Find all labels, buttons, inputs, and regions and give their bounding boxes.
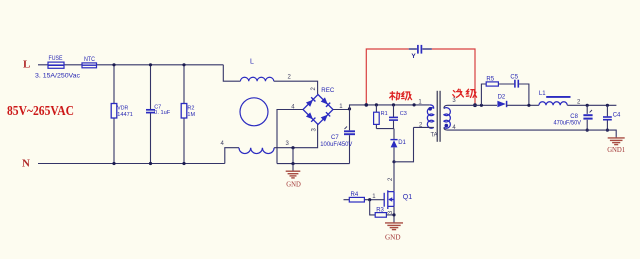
label ci-ji (secondary) [453, 89, 477, 97]
phase dot primary [428, 107, 432, 111]
resistor R3 [375, 213, 386, 218]
wire bridge pin1 stub [333, 109, 350, 111]
node rail pin1 [413, 103, 416, 106]
wire choke top lead-in [223, 65, 240, 81]
wire choke bottom lead-in [225, 148, 239, 164]
wire drop to primary ground rail [292, 148, 294, 164]
svg-text:TA: TA [431, 132, 438, 138]
svg-text:R2: R2 [187, 105, 194, 111]
choke bottom winding [239, 148, 274, 154]
svg-text:L: L [250, 59, 254, 66]
wire R5 to C5 [498, 83, 514, 85]
svg-text:GND: GND [286, 181, 301, 189]
svg-text:D1: D1 [398, 140, 406, 146]
resistor R2 1M [181, 104, 187, 119]
wire column C1 [150, 65, 152, 164]
wire red loop top/right [432, 49, 475, 105]
node source-R3 [392, 213, 395, 216]
ground GND (primary) [292, 164, 294, 172]
wire choke pin2 to bridge top [274, 81, 318, 94]
svg-text:D2: D2 [498, 95, 506, 101]
svg-text:0. 1uF: 0. 1uF [154, 110, 171, 116]
svg-text:VDR: VDR [117, 105, 128, 111]
bridge rectifier REC [303, 95, 333, 125]
svg-text:1M: 1M [187, 112, 195, 118]
svg-text:2: 2 [288, 75, 292, 81]
svg-text:N: N [22, 158, 30, 170]
transformer TA secondary winding [444, 108, 450, 129]
node red-left [365, 103, 369, 107]
svg-text:2: 2 [388, 177, 394, 181]
primary ground rail [277, 163, 350, 165]
node rail-R1 [375, 103, 378, 106]
node C8 bottom [586, 129, 589, 132]
svg-text:Q1: Q1 [403, 194, 412, 201]
svg-text:FUSE: FUSE [49, 56, 63, 62]
wire drain to transformer pin2 [394, 127, 414, 161]
wire red loop left leg [366, 49, 408, 104]
node snubber left [480, 104, 483, 107]
node L-C1 [149, 63, 152, 66]
svg-text:NTC: NTC [84, 57, 96, 63]
transistor Q1 (N-MOSFET) [384, 190, 394, 209]
bridge diode top-right [321, 97, 330, 106]
capacitor C3 [393, 105, 395, 117]
ground GND1 [615, 137, 617, 138]
svg-text:2: 2 [311, 87, 317, 91]
node ground rail [291, 162, 294, 165]
node rail-C3 [392, 103, 395, 106]
svg-text:C4: C4 [613, 113, 621, 119]
capacitor C8 470uF/50V [586, 104, 589, 107]
capacitor C5 [514, 80, 516, 88]
svg-text:1: 1 [372, 194, 376, 200]
wire gate to R3 [370, 200, 376, 215]
svg-text:REC: REC [321, 88, 335, 94]
capacitor C4 [606, 104, 609, 107]
diode D2 [497, 101, 505, 107]
svg-text:3: 3 [452, 98, 456, 104]
wire choke pin3 to bridge bottom [274, 124, 318, 147]
resistor R5 [486, 82, 498, 86]
wire D2 to L1 [507, 104, 539, 106]
wire main DC rail [350, 105, 430, 110]
svg-text:C3: C3 [400, 111, 407, 117]
phase dot secondary [445, 124, 449, 128]
wire R1/C3 bottom join [376, 128, 394, 130]
svg-text:GND: GND [385, 233, 401, 242]
svg-text:2: 2 [577, 99, 581, 105]
svg-text:3: 3 [286, 141, 290, 147]
wire bridge pin4 to ground rail [277, 110, 303, 164]
svg-text:85V~265VAC: 85V~265VAC [7, 104, 74, 119]
wire N line [38, 163, 225, 165]
svg-text:C7: C7 [331, 135, 339, 141]
choke top winding [240, 77, 273, 81]
node pin3/ground drop [291, 146, 294, 149]
node L-R2 [182, 63, 185, 66]
svg-text:R5: R5 [486, 76, 494, 82]
svg-text:GND1: GND1 [607, 146, 625, 154]
capacitor C7 100uF/450V [349, 109, 351, 130]
svg-text:R4: R4 [351, 192, 359, 198]
wire source down [393, 206, 395, 223]
svg-text:L: L [23, 59, 30, 71]
svg-text:C8: C8 [570, 114, 578, 120]
wire column VDR [113, 65, 115, 164]
svg-text:L1: L1 [539, 91, 546, 97]
svg-text:C5: C5 [510, 75, 518, 81]
diode D1 [393, 129, 395, 139]
fuse FUSE [48, 62, 64, 68]
node red-right [473, 103, 477, 107]
wire secondary output node [475, 104, 497, 106]
bridge diode top-left [306, 97, 315, 106]
svg-text:14471: 14471 [117, 112, 133, 118]
transformer TA primary winding [430, 105, 434, 109]
ground GND (source) [393, 222, 395, 224]
wire column R2 [183, 65, 185, 164]
transformer core [436, 91, 438, 142]
node gate [368, 198, 371, 201]
thermistor NTC [82, 63, 97, 68]
wire snubber left leg [481, 84, 486, 105]
resistor R1 [375, 105, 377, 129]
node L-VDR [112, 63, 115, 66]
node bridge output [348, 107, 351, 110]
svg-text:R3: R3 [376, 208, 384, 214]
choke core circle [240, 98, 268, 126]
svg-text:4: 4 [221, 141, 225, 147]
svg-text:3. 15A/250Vac: 3. 15A/250Vac [35, 74, 80, 80]
svg-text:3: 3 [311, 128, 317, 132]
capacitor C7 0.1uF (X cap) [146, 109, 155, 111]
node drain junction [392, 160, 395, 163]
svg-text:470uF/50V: 470uF/50V [554, 121, 582, 127]
node snubber right [527, 104, 530, 107]
bridge diode bottom-left [306, 112, 315, 121]
node C4 bottom [606, 129, 609, 132]
bridge diode bottom-right [321, 112, 330, 121]
wire L1 to output [567, 104, 616, 106]
label chu-ji (primary) [390, 92, 412, 100]
wire L line [38, 64, 223, 66]
capacitor Y [409, 48, 417, 50]
resistor R4 [344, 199, 370, 201]
wire snubber right leg [519, 84, 529, 105]
svg-text:100uF/450V: 100uF/450V [320, 142, 352, 148]
varistor VDR 14471 [111, 104, 117, 119]
svg-text:Y: Y [411, 53, 416, 60]
secondary bottom rail [448, 130, 617, 137]
svg-text:R1: R1 [381, 111, 388, 117]
wire drain trunk [393, 162, 395, 192]
wire gate [370, 199, 385, 201]
